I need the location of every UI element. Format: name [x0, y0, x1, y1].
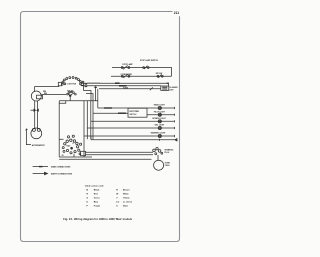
svg-text:Lt. Green: Lt. Green: [123, 201, 133, 204]
ignition switch junction dot: [69, 95, 71, 97]
connector pair at switch exit: [81, 82, 84, 83]
riser warning: [83, 101, 85, 139]
svg-text:P: P: [87, 206, 89, 208]
rectifier box: [128, 108, 147, 117]
wire end tick 1: [174, 107, 176, 109]
wire tail light: [87, 127, 174, 129]
svg-text:TAIL LIGHT: TAIL LIGHT: [155, 124, 166, 127]
lighting switch box: [58, 82, 61, 86]
riser head light wire: [97, 89, 99, 108]
leader tick: [25, 129, 27, 130]
ignition switch contact arc: [67, 91, 77, 95]
wire ignition to bus: [69, 97, 71, 101]
magneto box: [59, 139, 92, 157]
svg-text:UNIT 6V: UNIT 6V: [130, 114, 138, 116]
svg-text:Black: Black: [94, 190, 100, 192]
svg-text:MAG: MAG: [67, 144, 71, 147]
wire end tick 5: [174, 135, 176, 137]
magneto drop wire: [73, 154, 75, 157]
riser tail: [86, 101, 88, 139]
staircase wire b: [86, 94, 93, 101]
wire left drop to magneto box: [58, 101, 60, 157]
wire jog at switch bottom left: [59, 101, 66, 103]
svg-text:ALTERNATOR: ALTERNATOR: [32, 144, 45, 147]
riser earth: [90, 136, 92, 140]
wire headlamp main feed: [35, 87, 60, 92]
svg-text:White: White: [123, 193, 130, 196]
svg-text:B: B: [87, 190, 89, 192]
svg-text:WARNING LIGHT: WARNING LIGHT: [151, 132, 166, 135]
svg-text:HEAD LIGHT: HEAD LIGHT: [154, 104, 166, 107]
bulb speedo light: [158, 120, 161, 123]
svg-text:Yellow: Yellow: [123, 198, 130, 200]
svg-text:RECTIFIER: RECTIFIER: [130, 111, 140, 113]
svg-text:Purple: Purple: [94, 205, 101, 208]
headlamp: [31, 91, 41, 101]
svg-text:IGN SW: IGN SW: [67, 90, 74, 92]
wire speedo light: [91, 120, 175, 122]
svg-text:G: G: [87, 198, 89, 200]
wire pilot light: [147, 114, 175, 116]
connector sleeve on upper bus: [87, 82, 100, 84]
crossing tick: [94, 87, 97, 88]
svg-text:U: U: [87, 202, 89, 204]
legend earth arrow: [45, 172, 48, 175]
svg-text:CB: CB: [62, 155, 64, 157]
tail lamp: [31, 128, 42, 139]
svg-text:211: 211: [174, 11, 179, 15]
flasher unit contacts: [162, 87, 167, 89]
riser to rectifier feed: [92, 101, 94, 139]
svg-text:Blue: Blue: [94, 202, 99, 204]
wire main bus lower: [99, 88, 161, 90]
svg-text:DIP SW: DIP SW: [156, 73, 163, 75]
wire stop lamp circuit top: [112, 68, 172, 77]
svg-text:SPEEDO LIGHT: SPEEDO LIGHT: [152, 118, 166, 120]
connector on upper bus right: [115, 82, 120, 84]
svg-text:S: S: [116, 206, 118, 208]
svg-text:Slate: Slate: [123, 205, 129, 208]
wire rectifier feed: [93, 112, 128, 114]
svg-text:EARTH CONNECTIONS: EARTH CONNECTIONS: [51, 173, 73, 176]
contact breaker circles: [66, 149, 80, 154]
svg-text:PUSH: PUSH: [165, 165, 170, 167]
svg-text:STOP LAMP SWITCH: STOP LAMP SWITCH: [140, 59, 159, 62]
svg-text:PILOT LIGHT: PILOT LIGHT: [154, 111, 166, 113]
headlamp pilot rect: [37, 95, 43, 99]
page border frame: [21, 12, 180, 242]
wire earth return: [91, 139, 177, 141]
wire end tick 4: [174, 127, 176, 129]
stop lamp symbol: [121, 65, 130, 69]
tail lamp bulbs: [32, 128, 40, 131]
bulb warning light: [158, 134, 161, 137]
condenser symbol: [121, 74, 129, 78]
svg-text:Y: Y: [116, 198, 118, 200]
legend main connections sample: [33, 166, 48, 168]
svg-text:STOP LAMP: STOP LAMP: [122, 63, 133, 66]
wire magneto earth: [59, 158, 151, 160]
svg-text:PLUG: PLUG: [165, 152, 170, 154]
wire headlamp dip feed: [41, 94, 66, 96]
wire main bus upper: [82, 83, 169, 86]
svg-text:Green: Green: [94, 197, 101, 200]
tail lamp wires down: [35, 101, 38, 129]
connector on head light wire: [104, 107, 112, 109]
colour code rows: [87, 189, 133, 208]
svg-text:Red: Red: [94, 194, 99, 196]
wire condenser circuit: [111, 75, 172, 77]
flasher unit box: [161, 86, 169, 90]
svg-text:Brown: Brown: [123, 189, 130, 192]
legend earth sample: [33, 173, 45, 175]
legend main connector mark: [39, 166, 43, 168]
connector on rectifier feed: [118, 112, 126, 114]
svg-text:Cable colour code: Cable colour code: [85, 185, 105, 187]
dip switch symbol: [157, 74, 163, 77]
wire end tick 2: [174, 114, 176, 116]
HT cable sheath: [86, 152, 154, 154]
horn: [154, 160, 164, 170]
junction tick at flasher feed: [167, 83, 169, 84]
earth stub: [31, 109, 34, 111]
stop lamp switch symbol: [143, 66, 149, 69]
svg-text:LG: LG: [116, 202, 119, 204]
horn drop wire: [157, 155, 159, 160]
lighting switch contact arc: [61, 77, 84, 86]
svg-text:LIGHT SW: LIGHT SW: [67, 83, 76, 85]
svg-text:MAIN CONNECTIONS: MAIN CONNECTIONS: [51, 166, 71, 169]
wire head light: [98, 107, 175, 109]
connector arrows on drop wires: [34, 109, 39, 111]
bulb pilot light: [158, 113, 161, 116]
magneto contact ring: [64, 135, 82, 148]
riser speedo: [90, 101, 92, 139]
svg-text:N: N: [116, 190, 118, 192]
svg-text:Fig. 9.1. Wiring diagram for 1: Fig. 9.1. Wiring diagram for 1968 to 196…: [63, 217, 132, 221]
svg-text:R: R: [87, 194, 89, 196]
connector on middle bus: [119, 85, 127, 87]
extra magneto contacts: [62, 147, 64, 149]
wire lower bus: [59, 100, 98, 102]
earth wire end arrow: [175, 139, 177, 141]
spark plug cluster: [153, 148, 163, 155]
switch slash on lower bus: [150, 87, 153, 90]
breaker junction dot: [71, 147, 73, 149]
wire warning light: [84, 135, 175, 137]
riser pilot wire: [95, 86, 97, 101]
alternator leader line: [26, 129, 31, 145]
svg-text:CONDENSER: CONDENSER: [121, 74, 133, 76]
connector tick on earth wire: [159, 139, 161, 141]
svg-text:W: W: [116, 194, 118, 196]
bulb head light: [158, 106, 161, 109]
wire end tick 3: [174, 120, 176, 122]
wire main bus middle: [82, 85, 161, 87]
staircase wire a: [84, 83, 91, 101]
bulb tail light: [158, 126, 161, 129]
svg-text:UNIT: UNIT: [170, 90, 175, 92]
HT cable connector: [81, 151, 86, 155]
svg-text:LT: LT: [73, 143, 75, 145]
